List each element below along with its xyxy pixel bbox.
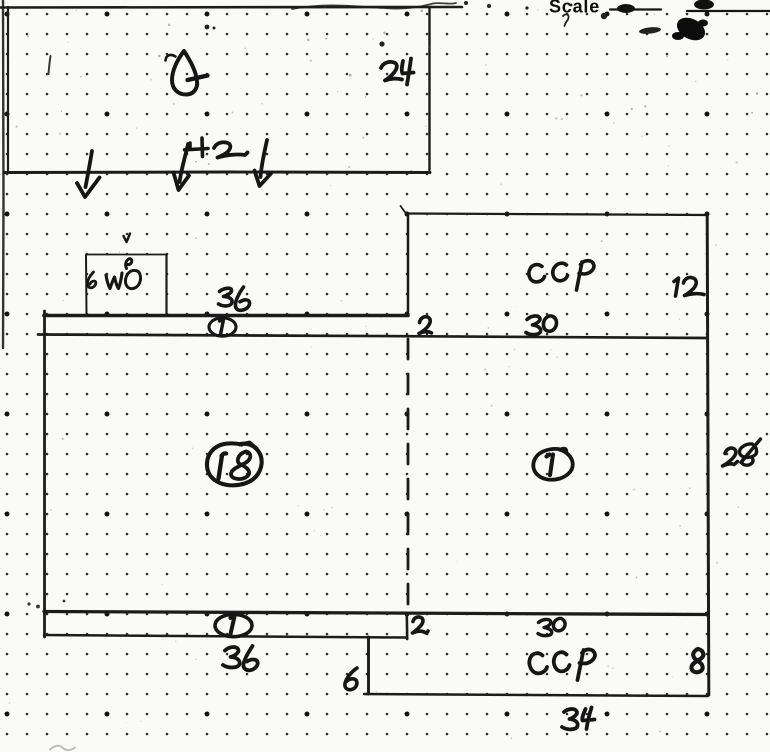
arrow 2 xyxy=(174,144,190,190)
label 30 top : digit 3 xyxy=(526,316,541,335)
wd box top edge xyxy=(86,254,167,256)
wd label 6 xyxy=(87,272,95,288)
label CCP bottom : C2 xyxy=(554,652,570,671)
pen dash inside garage box xyxy=(49,56,51,74)
ccp top box top edge xyxy=(408,214,707,216)
big ink blob xyxy=(672,13,709,45)
label 36 top : digit 6 xyxy=(235,287,249,310)
circled 18 : ellipse xyxy=(207,443,262,485)
G symbol crossbar xyxy=(188,76,208,81)
circled 18 : digit 8 xyxy=(231,452,250,479)
question curl speck xyxy=(563,14,569,26)
G symbol curl xyxy=(166,55,176,61)
arrow 3 xyxy=(255,140,272,186)
label CCP bottom : C1 xyxy=(529,653,547,673)
label 34 : digit 3 xyxy=(562,709,578,729)
ccp bottom box bottom edge xyxy=(364,694,708,696)
circled 1 bottom : ellipse xyxy=(215,614,252,636)
circled 1 bottom : digit 1 xyxy=(231,617,235,635)
scale underline 1 xyxy=(610,8,661,10)
dashed partition xyxy=(407,339,410,611)
label 36 top : digit 3 xyxy=(219,288,233,306)
bottom wall upper line xyxy=(44,612,708,615)
label CCP bottom : P xyxy=(578,649,595,680)
top wall lower line xyxy=(38,335,707,339)
garage box left edge xyxy=(7,7,9,170)
circled 1 right : hook xyxy=(560,448,567,451)
label 2 top junction xyxy=(419,317,432,334)
top flourish squiggle xyxy=(292,3,456,9)
label CCP top : P xyxy=(577,261,594,290)
bottom wall end connector xyxy=(405,614,408,639)
label 42 : digit 4 xyxy=(185,138,209,157)
label 24 : digit 2 xyxy=(381,62,402,81)
bottom left specks xyxy=(27,600,65,609)
label 28 : digit 8 slash xyxy=(741,439,761,463)
label 30 bottom : digit 0 xyxy=(553,618,565,630)
label 28 : digit 8 loops xyxy=(739,444,756,465)
top form line xyxy=(0,6,462,9)
wd label W xyxy=(106,273,122,289)
label CCP top : C1 xyxy=(529,265,545,282)
arrow 1 xyxy=(77,151,100,197)
svg-text:Scale: Scale xyxy=(549,0,600,17)
label 30 top : digit 0 xyxy=(543,316,556,331)
label 24 : digit 4 xyxy=(402,59,414,85)
top wall upper line xyxy=(44,314,408,318)
ccp bottom box left edge xyxy=(367,637,370,694)
right wall xyxy=(707,214,709,695)
label 42 : digit 2 xyxy=(214,142,248,157)
faint pencil mark bottom left xyxy=(50,746,75,750)
label 6 dim bottom xyxy=(345,668,357,690)
wd box right edge xyxy=(165,255,167,314)
label 12 : digit 1 xyxy=(674,278,679,296)
smudge left of blob xyxy=(639,26,662,35)
main rect left wall xyxy=(43,311,46,637)
scale underline 2 xyxy=(687,10,770,12)
ccp top box left edge xyxy=(407,214,410,316)
label 2 bottom junction xyxy=(413,617,429,633)
garage box bottom edge xyxy=(4,171,430,175)
scale line blob 1 xyxy=(617,4,635,13)
circled 18 : digit 1 xyxy=(219,453,227,478)
check mark above wd box xyxy=(124,234,131,243)
scale line blob 2 xyxy=(694,0,714,10)
label 36 bottom : digit 6 xyxy=(243,646,257,670)
label 28 : digit 2 xyxy=(723,448,738,466)
G symbol teardrop xyxy=(172,51,197,95)
wd box left edge xyxy=(85,255,88,314)
circled 1 top wall : digit 1 xyxy=(220,320,224,335)
circled 1 top wall : ellipse xyxy=(209,318,236,336)
garage box right edge xyxy=(428,7,430,170)
circled 18 : bump xyxy=(240,443,257,449)
circled 1 right : digit 1 xyxy=(547,455,554,476)
bottom wall lower line xyxy=(44,635,406,638)
label 30 bottom : digit 3 xyxy=(538,619,552,635)
label 36 bottom : digit 3 xyxy=(223,647,240,667)
label 34 : digit 4 xyxy=(582,708,594,730)
label 8 bottom right xyxy=(691,649,703,672)
circled 1 right : ellipse xyxy=(533,449,572,480)
wd label D xyxy=(125,259,140,289)
label 12 : digit 2 xyxy=(684,278,705,296)
small specks header xyxy=(205,1,608,47)
page left edge line xyxy=(2,0,5,348)
ccp top box corner hook xyxy=(401,206,407,214)
label CCP top : C2 xyxy=(553,263,568,281)
